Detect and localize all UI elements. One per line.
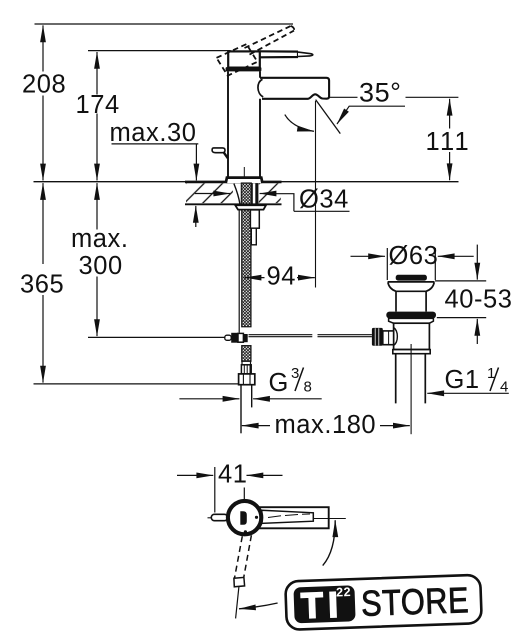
- dimension max.300: [96, 183, 98, 336]
- G3/8 label: [269, 365, 313, 397]
- deck thickness arrow up: [195, 206, 197, 227]
- deck slab hatching left: [186, 183, 233, 203]
- dimension max.180: [242, 425, 410, 427]
- spout-body fillet curve: [258, 79, 263, 97]
- stream angle curved arrow: [285, 115, 314, 132]
- countertop deck line: [34, 181, 459, 183]
- rod nut: [383, 331, 394, 345]
- top view spout: [259, 507, 329, 528]
- extension line top 208: [35, 23, 294, 25]
- lever tip: [298, 52, 313, 56]
- svg-text:174: 174: [76, 91, 120, 119]
- 35deg leader with arrow: [337, 106, 405, 124]
- faucet body sides: [228, 71, 260, 177]
- top view centerline left: [208, 517, 212, 519]
- drain body: [394, 323, 430, 349]
- dashed raised lever: [245, 26, 295, 55]
- dia34 leader left arrow: [195, 194, 350, 212]
- top view spout centerline: [314, 518, 346, 520]
- svg-text:max.: max.: [71, 225, 128, 253]
- svg-text:22: 22: [336, 585, 351, 600]
- dimension 40-53: [476, 245, 478, 344]
- svg-text:35°: 35°: [359, 78, 401, 108]
- TI STORE logo: [285, 575, 482, 630]
- svg-text:94: 94: [267, 263, 296, 291]
- swivel curved arrow left: [239, 603, 278, 609]
- dia63 arrows: [351, 255, 474, 257]
- top view lever swung dashed: [235, 535, 252, 577]
- hole left curve: [234, 184, 240, 204]
- extension line 174: [88, 50, 231, 52]
- G1 1/4 label: [445, 365, 509, 396]
- G1 1/4 leader arrow: [427, 392, 509, 394]
- svg-text:8: 8: [304, 379, 313, 396]
- dashed rotated handle outline: [217, 44, 258, 76]
- max.30 leader underline: [112, 143, 199, 145]
- top view faucet circle: [228, 501, 261, 534]
- drain flange funnel: [388, 282, 435, 312]
- dimension 111: [449, 99, 451, 180]
- svg-text:365: 365: [20, 270, 64, 298]
- supply pipe below nut: [240, 385, 242, 434]
- hose crimp fitting: [241, 365, 251, 374]
- top view pull-rod tab: [211, 514, 227, 520]
- dimension 208: [42, 25, 44, 180]
- svg-text:max.180: max.180: [275, 411, 377, 439]
- deck slab bottom edge: [185, 203, 282, 205]
- extension line bottom 365: [34, 383, 239, 385]
- top view screw dots: [255, 516, 258, 519]
- ball joint arc: [394, 328, 398, 346]
- deck slab top edge: [185, 181, 282, 184]
- svg-text:41: 41: [218, 461, 247, 489]
- svg-text:Ø34: Ø34: [299, 186, 349, 214]
- second supply hose line: [238, 210, 240, 333]
- svg-text:G1: G1: [445, 366, 480, 394]
- pull rod below deck: [250, 210, 259, 228]
- 41 extension lines: [214, 467, 216, 513]
- escutcheon base: [226, 178, 263, 183]
- dia63 extension lines: [386, 248, 388, 280]
- svg-text:40-53: 40-53: [445, 286, 513, 314]
- pop-up pull rod knob: [212, 148, 225, 153]
- stream vertical centerline: [315, 101, 317, 288]
- svg-text:111: 111: [426, 128, 471, 156]
- knurled knob: [372, 328, 383, 346]
- extension line bottom max.300: [88, 336, 225, 338]
- top view cartridge hole: [240, 511, 247, 525]
- pop-up linkage rod: [249, 335, 372, 337]
- swivel curved arrow right: [323, 520, 336, 565]
- coupling ring: [393, 350, 430, 354]
- 35deg slanted stream line: [316, 100, 341, 134]
- faucet body centerline bottom: [243, 167, 245, 181]
- dimension 94: [245, 277, 315, 279]
- shank threaded through deck: [241, 183, 251, 205]
- svg-text:208: 208: [22, 71, 66, 99]
- dimension 365: [42, 183, 44, 383]
- braided supply hose: [242, 210, 251, 327]
- top view lever over spout: [262, 510, 314, 523]
- faucet spout: [260, 78, 329, 99]
- svg-text:300: 300: [79, 252, 123, 280]
- 35deg extension line: [329, 96, 358, 98]
- 40-53 extension lines: [435, 280, 486, 282]
- rod clamp: [225, 335, 231, 340]
- lever angle line: [236, 587, 239, 619]
- lever arm: [260, 51, 298, 57]
- dimension 174: [96, 52, 98, 180]
- deck slab hatching right: [259, 183, 281, 203]
- tailpipe: [396, 354, 426, 404]
- drain centerline: [410, 344, 412, 434]
- drain lower flange: [389, 318, 434, 323]
- G3/8 nut: [239, 374, 255, 385]
- pull rod dark bar in deck: [255, 183, 258, 204]
- lever end cap: [234, 577, 245, 586]
- svg-text:G: G: [269, 369, 289, 397]
- handle skirt (black): [226, 67, 262, 71]
- locknut under deck: [235, 205, 266, 209]
- G3/8 dimension arrows: [179, 398, 321, 400]
- svg-text:STORE: STORE: [360, 579, 469, 624]
- svg-text:Ø63: Ø63: [389, 242, 439, 270]
- drain black seal ring: [386, 312, 436, 319]
- drain plug cap: [396, 275, 427, 281]
- max.30 arrow down to deck: [195, 144, 197, 181]
- hose ferrule: [242, 361, 251, 365]
- svg-text:max.30: max.30: [110, 119, 197, 147]
- handle block: [228, 51, 260, 67]
